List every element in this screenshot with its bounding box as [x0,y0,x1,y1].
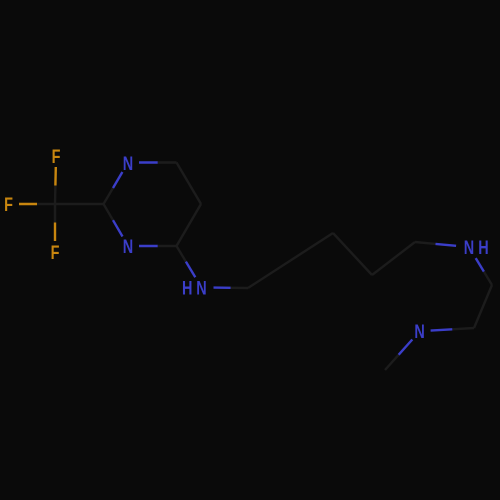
bond C5-C4 (pyrimidine) [177,204,202,246]
svg-text:N: N [414,321,424,342]
svg-text:N: N [196,278,206,299]
svg-text:F: F [52,146,61,167]
bond C7-C2 [55,203,104,205]
bond N3-C4 (pyrimidine) [139,245,158,247]
bond C6-C5 (pyrimidine) [177,163,202,205]
bond CH2-CH2 chain apex [291,233,334,261]
bond CH2-CH2 chain [248,261,291,289]
bond N1-C6 (pyrimidine) [139,161,158,163]
svg-text:N: N [123,236,133,257]
bond F3-C7 (CF3) [54,223,56,242]
svg-text:N: N [123,153,133,174]
bond CH2-CH2 right edge [474,285,492,328]
svg-text:F: F [51,242,60,263]
bond CH2-NH [415,242,436,244]
bond CH2-CH2 chain down [333,233,372,275]
svg-text:H: H [478,237,488,258]
bond C2-N3 (pyrimidine) [104,204,114,220]
svg-text:F: F [4,194,13,215]
bond CH2-CH2 chain up [372,242,415,275]
bond N-CH2 chain start [214,286,231,289]
bond CH2-N(methyl) [452,328,474,329]
bond F1-C7 (CF3) [54,167,57,186]
bond F2-C7 (CF3) [19,203,37,205]
svg-text:N: N [464,237,474,258]
bond NH-CH2 [476,258,484,272]
bond N-CH3 [399,340,413,355]
bond C2-N1 (pyrimidine) [104,188,114,204]
svg-text:H: H [182,278,192,299]
bond C4-N (arylamine) [177,246,186,262]
